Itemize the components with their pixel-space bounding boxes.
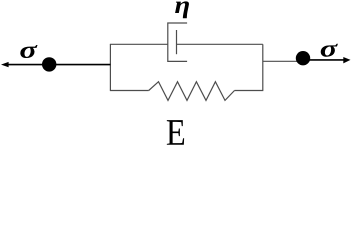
node B: right junction vertical bar [262,44,264,90]
right stress arrow shaft [303,59,345,61]
right node dot [296,51,310,65]
left stress arrow shaft [7,64,110,66]
label sigma (right stress) [321,44,338,57]
dashpot cylinder (cup) [168,23,187,61]
label eta (dashpot viscosity) [175,1,189,18]
node A: left junction vertical bar [109,44,111,90]
label E (spring modulus) [167,120,184,145]
spring zigzag [149,82,235,101]
wire: bottom branch right rod [235,90,264,92]
wire: top branch left rod [110,43,168,45]
right arrowhead [343,57,350,63]
left arrowhead [1,62,9,67]
wire: right rod to node dot [263,60,299,62]
label sigma (left stress) [20,45,37,58]
dashpot piston rod [177,43,263,45]
dashpot piston plate [176,30,178,54]
wire: bottom branch left rod [110,90,149,92]
left node dot [42,57,56,71]
